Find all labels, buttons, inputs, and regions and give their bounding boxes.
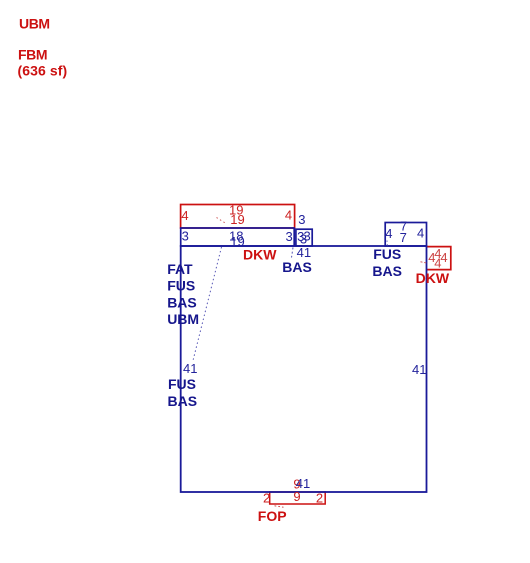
svg-text:4: 4 [417, 226, 424, 241]
svg-text:FOP: FOP [258, 508, 287, 524]
svg-text:FBM: FBM [18, 47, 47, 63]
red DKW box outline (right side) [427, 247, 451, 270]
svg-text:41: 41 [183, 361, 197, 376]
leader line (blue dotted, from 18/19 label down to 41 label) [193, 247, 222, 361]
svg-text:FUS: FUS [373, 246, 401, 262]
svg-text:BAS: BAS [167, 295, 197, 311]
svg-text:41: 41 [412, 362, 426, 377]
leader dots (blue, under left 4 of FUS box) [386, 241, 388, 247]
svg-text:2: 2 [316, 490, 323, 505]
svg-text:3: 3 [286, 229, 293, 244]
small blue 3x3 box outline [296, 229, 312, 246]
svg-text:FUS: FUS [168, 376, 196, 392]
svg-text:19: 19 [230, 212, 244, 227]
svg-text:BAS: BAS [168, 393, 198, 409]
svg-text:DKW: DKW [243, 246, 277, 262]
leader line (red dotted, below red 19 label) [217, 218, 227, 224]
svg-text:BAS: BAS [282, 259, 312, 275]
svg-text:FUS: FUS [167, 278, 195, 294]
svg-text:DKW: DKW [416, 270, 450, 286]
leader line (blue dashed, from 3x3 box to 41 label) [292, 248, 294, 258]
main dwelling outline (blue rectangle) [181, 246, 427, 492]
svg-text:4: 4 [181, 208, 188, 223]
svg-text:41: 41 [297, 245, 311, 260]
svg-text:UBM: UBM [167, 311, 199, 327]
svg-text:7: 7 [400, 230, 407, 245]
svg-text:2: 2 [263, 490, 270, 505]
svg-text:9: 9 [293, 489, 300, 504]
svg-text:FAT: FAT [167, 261, 193, 277]
leader dash (red, left of DKW box) [421, 262, 427, 263]
svg-text:BAS: BAS [372, 263, 402, 279]
svg-text:UBM: UBM [19, 16, 50, 32]
red FOP stoop outline (bottom) [270, 492, 326, 504]
blue FUS/BAS bump-out outline (top right) [385, 223, 426, 247]
svg-text:3: 3 [298, 212, 305, 227]
svg-text:4: 4 [285, 207, 292, 222]
svg-text:4: 4 [385, 226, 392, 241]
blue DKW strip outline (box below red box) [181, 228, 295, 246]
svg-text:4: 4 [434, 255, 441, 270]
leader dash (red, under FOP box) [275, 506, 284, 507]
red UBM/FBM addition outline (top box) [181, 205, 295, 229]
svg-text:3: 3 [182, 228, 189, 243]
svg-text:(636 sf): (636 sf) [18, 62, 68, 78]
